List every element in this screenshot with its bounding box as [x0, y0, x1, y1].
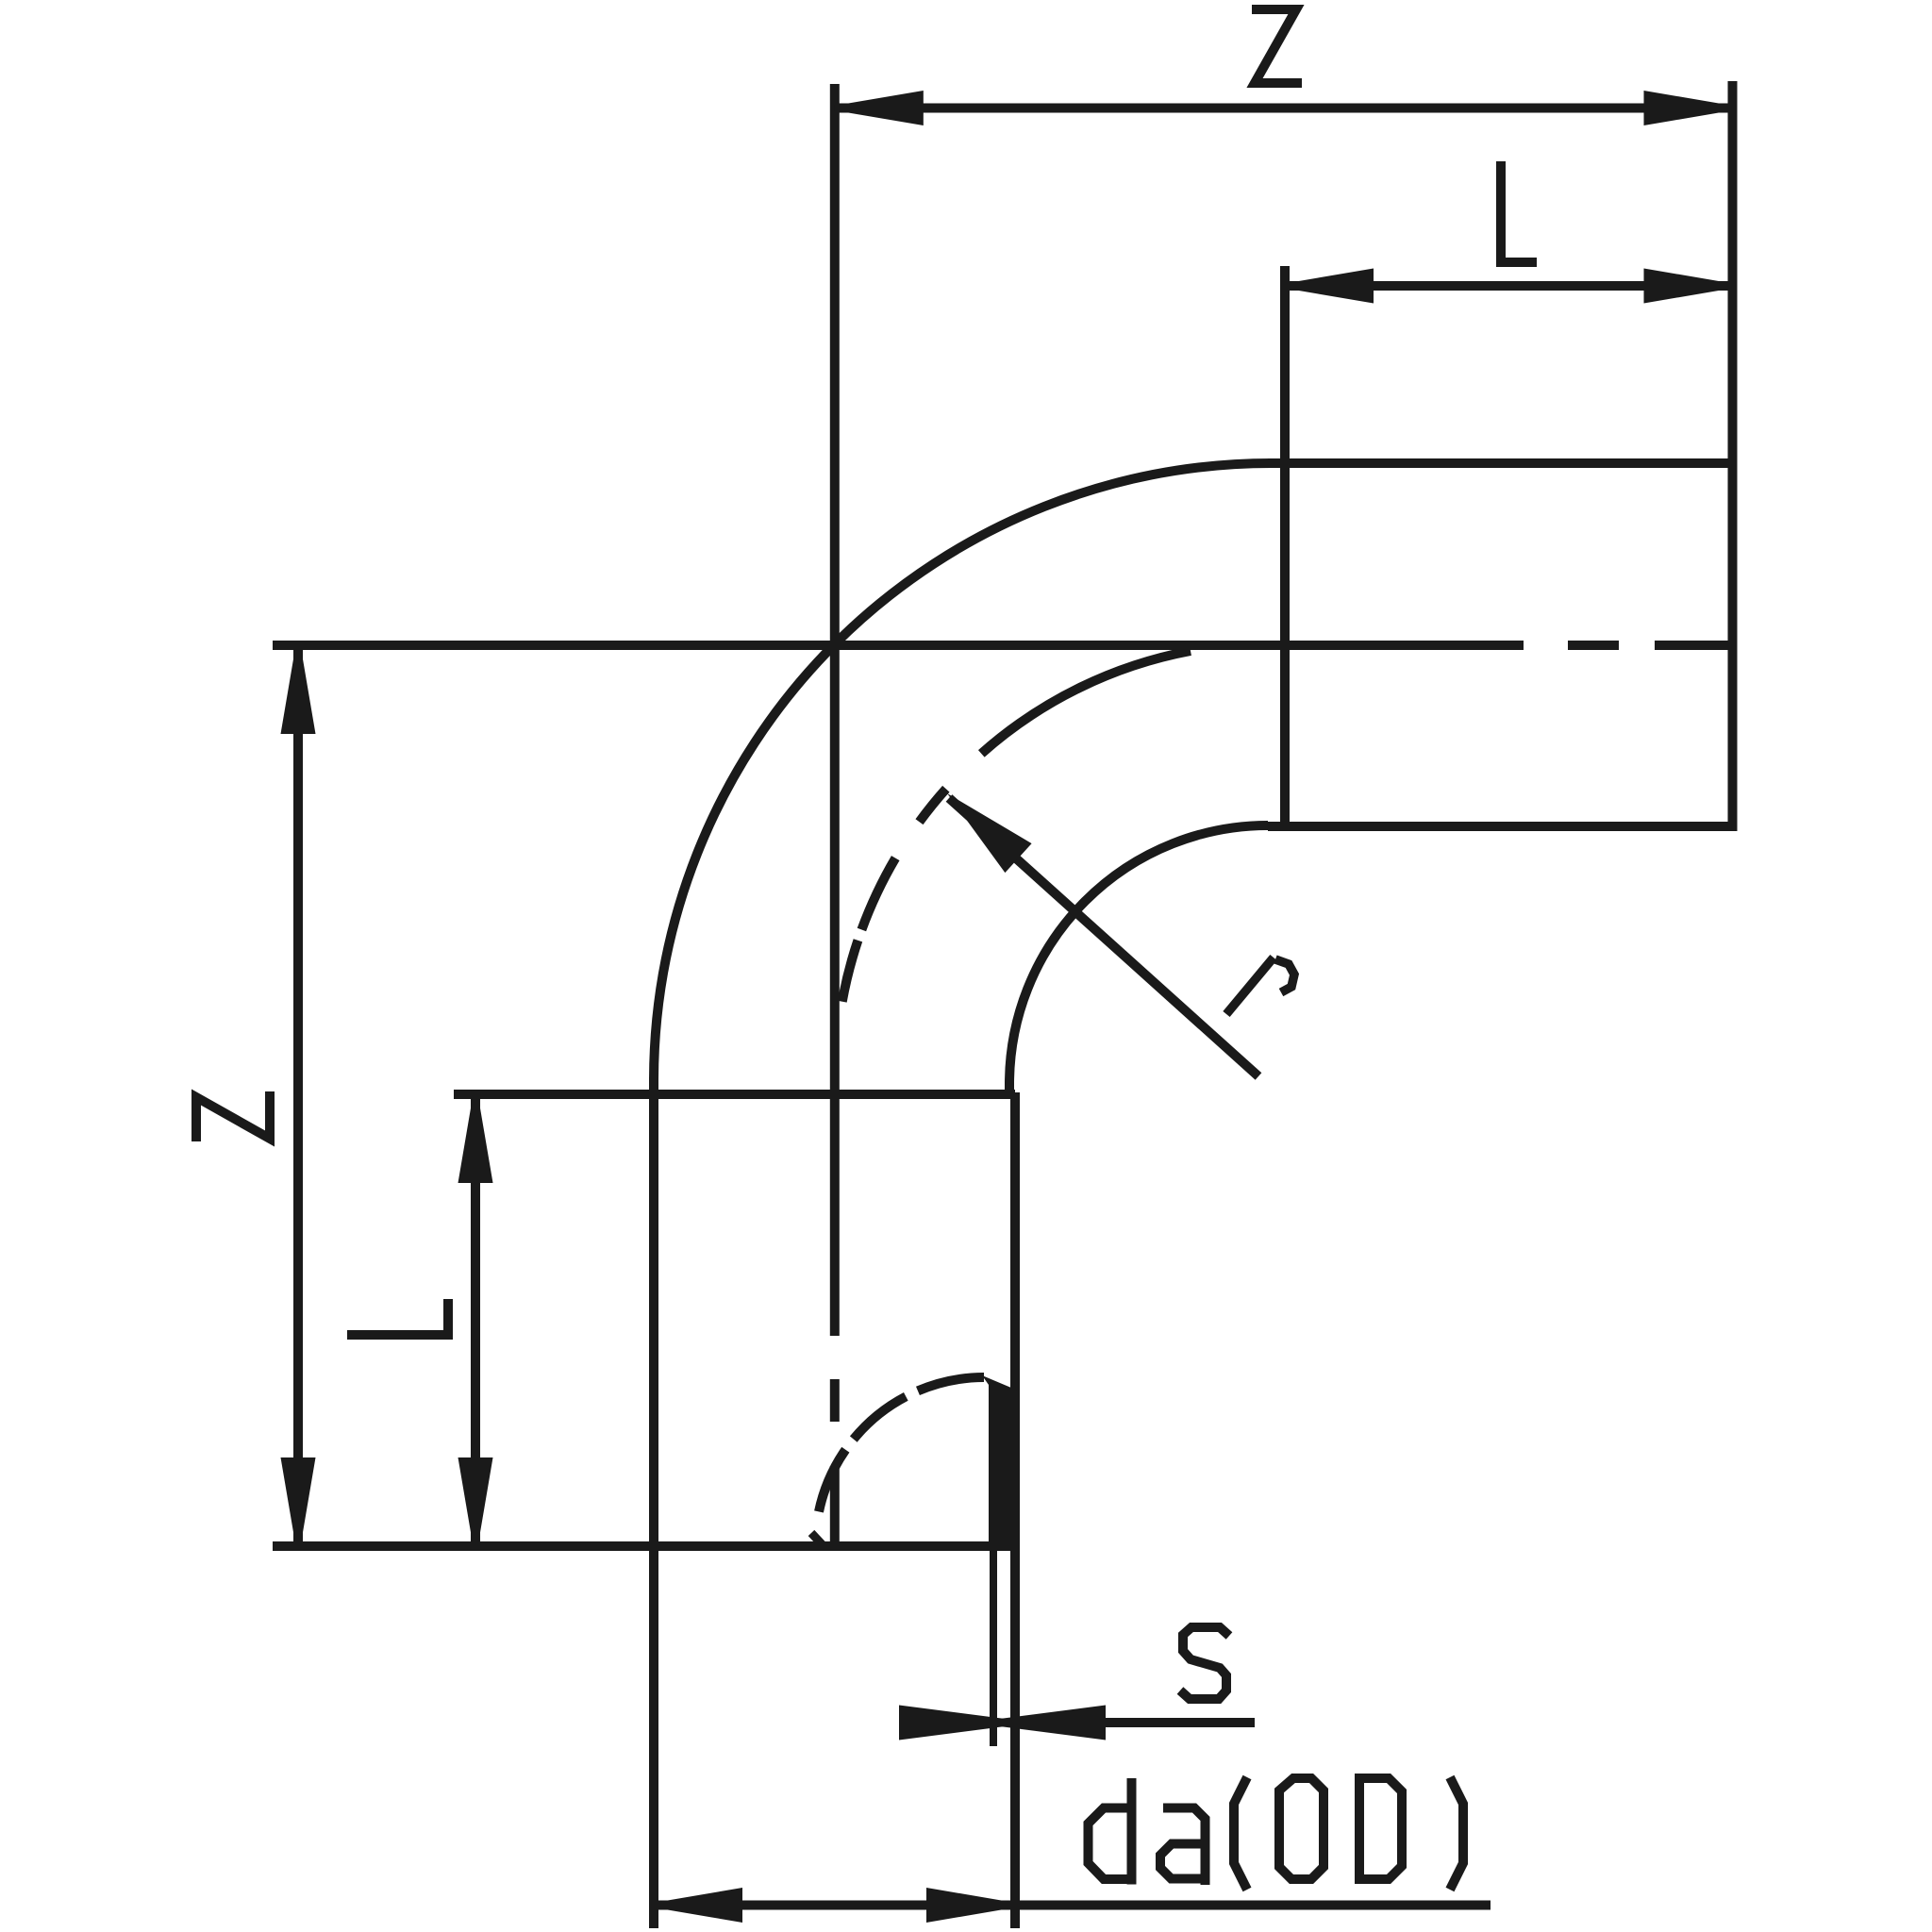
- dimension line s: [1016, 1718, 1255, 1727]
- socket bottom line: [273, 1541, 1020, 1551]
- arrow Z top right: [1644, 91, 1733, 125]
- label L top: [1501, 161, 1537, 262]
- socket depth line right pipe / L extension: [1280, 266, 1290, 831]
- label da(OD) : ): [1450, 1777, 1463, 1890]
- label da(OD) : D: [1359, 1778, 1402, 1879]
- label da(OD) : d: [1089, 1778, 1132, 1885]
- outer bend arc: [654, 463, 1272, 1081]
- socket bore chamfer dash: [811, 1533, 824, 1547]
- arrow L top right: [1644, 269, 1733, 304]
- inner bend arc: [1009, 825, 1268, 1084]
- bottom edge of right pipe: [1268, 822, 1733, 831]
- radius leader line r: [949, 798, 1258, 1076]
- arrow Z left down: [281, 1457, 316, 1546]
- socket depth line bottom pipe / L extension: [454, 1090, 1015, 1099]
- dimension line L top: [1285, 281, 1733, 291]
- label Z left (rotated): [196, 1091, 270, 1141]
- dimension line L left: [471, 1094, 480, 1546]
- label L left (rotated): [347, 1299, 448, 1335]
- horizontal centerline: [273, 641, 1524, 650]
- dimension line Z left: [293, 645, 303, 1546]
- inner arc stub to socket line: [1005, 1082, 1014, 1097]
- bend axis arc r (dashed): [841, 651, 1191, 1011]
- section cut wall (blackened): [982, 1375, 1018, 1551]
- label s: [1180, 1627, 1229, 1699]
- label da(OD) : a: [1160, 1808, 1208, 1886]
- top edge of right pipe: [1268, 458, 1733, 468]
- arrow Z left up: [281, 645, 316, 734]
- arrow da left: [654, 1888, 742, 1923]
- label da(OD) : (: [1234, 1777, 1247, 1890]
- label r (rotated 45): [1226, 958, 1294, 1014]
- arrow Z top left: [835, 91, 924, 125]
- arrow L top left: [1285, 269, 1374, 304]
- arrow s left: [899, 1706, 1016, 1740]
- arrow s right: [989, 1706, 1106, 1740]
- label da(OD) : O: [1279, 1778, 1324, 1879]
- arrow L left up: [458, 1094, 493, 1183]
- bore line below socket: [990, 1551, 997, 1746]
- dimension line Z top: [835, 104, 1733, 113]
- left wall of bottom pipe: [649, 1077, 658, 1928]
- arrow da right: [926, 1888, 1015, 1923]
- arrow r: [947, 793, 1032, 873]
- socket bottom arc (dashed): [817, 1377, 984, 1523]
- right pipe end line / extension: [1728, 81, 1738, 831]
- label Z top: [1252, 9, 1302, 83]
- arrow L left down: [458, 1457, 493, 1546]
- right wall of bottom pipe: [1010, 1092, 1020, 1928]
- dimension line da(OD): [654, 1901, 1491, 1910]
- vertical centerline: [830, 84, 840, 1336]
